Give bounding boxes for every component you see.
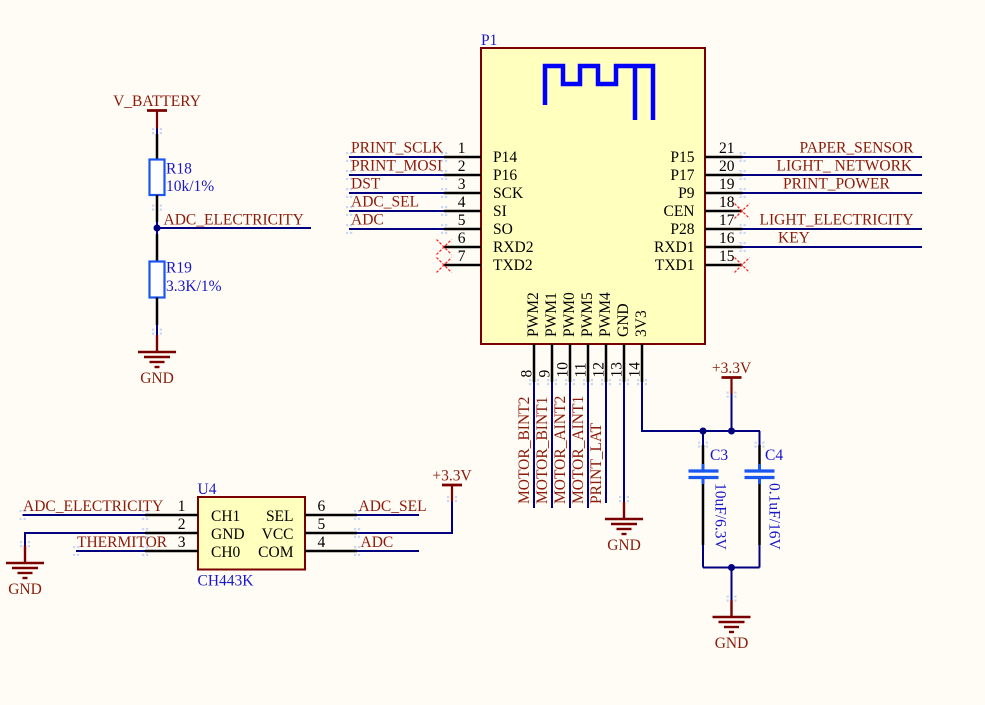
pin 9 (PWM1) stub [551, 344, 554, 382]
svg-text:C4: C4 [765, 447, 783, 464]
wire net THERMITOR [76, 550, 145, 552]
svg-text:PWM5: PWM5 [579, 292, 596, 337]
svg-text:CEN: CEN [664, 203, 695, 220]
no-connect X on pin 15 [735, 258, 750, 273]
wire net ADC_ELECTRICITY to U4 pin1 [23, 514, 146, 516]
svg-text:PRINT_SCLK: PRINT_SCLK [351, 140, 444, 157]
svg-text:CH443K: CH443K [198, 573, 255, 590]
wire R19 to ground [156, 298, 159, 326]
svg-text:7: 7 [458, 248, 466, 265]
svg-text:P9: P9 [678, 185, 695, 202]
wire 3V3 from pin14 [642, 382, 760, 431]
svg-text:R19: R19 [166, 260, 192, 277]
pin 5 stub U4 [305, 532, 357, 535]
power port +3.3V at U4 [442, 484, 462, 487]
svg-text:GND: GND [140, 370, 174, 387]
wire net MOTOR_BINT1 [551, 382, 553, 508]
svg-text:2: 2 [458, 158, 466, 175]
pin 2 (P16) stub [444, 174, 481, 177]
svg-text:V_BATTERY: V_BATTERY [113, 93, 201, 110]
svg-text:17: 17 [719, 212, 735, 229]
wire pin13 GND [623, 382, 625, 502]
wire net PAPER_SENSOR [743, 156, 923, 158]
wire caps to ground [731, 568, 733, 601]
svg-text:4: 4 [458, 194, 466, 211]
svg-text:P1: P1 [481, 32, 497, 49]
pin 3 (SCK) stub [444, 192, 481, 195]
pin 1 stub U4 [145, 514, 198, 517]
svg-text:PWM0: PWM0 [561, 292, 578, 337]
svg-text:P14: P14 [493, 149, 517, 166]
svg-text:13: 13 [609, 362, 626, 378]
pin 10 (PWM0) stub [569, 344, 572, 382]
antenna meander graphic inside P1 [545, 66, 653, 120]
svg-text:GND: GND [607, 537, 641, 554]
svg-text:GND: GND [211, 526, 245, 543]
svg-text:SCK: SCK [493, 185, 524, 202]
wire caps bottom bus [703, 567, 760, 569]
no-connect X on pin 6 [437, 240, 452, 255]
wire net KEY [743, 246, 923, 248]
wire net PRINT_SCLK [349, 156, 444, 158]
svg-text:CH0: CH0 [211, 544, 241, 561]
svg-text:10: 10 [555, 362, 572, 378]
pin 1 (P14) stub [444, 156, 481, 159]
svg-text:5: 5 [458, 212, 466, 229]
svg-text:MOTOR_AINT2: MOTOR_AINT2 [552, 396, 569, 504]
wire net ADC [349, 228, 444, 230]
svg-text:MOTOR_BINT2: MOTOR_BINT2 [516, 397, 533, 504]
svg-text:20: 20 [719, 158, 735, 175]
pin 6 (RXD2) stub [444, 246, 481, 249]
svg-text:MOTOR_AINT1: MOTOR_AINT1 [570, 396, 587, 504]
svg-text:ADC: ADC [361, 534, 394, 551]
svg-text:10k/1%: 10k/1% [166, 178, 214, 195]
wire net LIGHT_ NETWORK [743, 174, 923, 176]
pin 6 stub U4 [305, 514, 357, 517]
svg-text:SEL: SEL [266, 508, 294, 525]
wire net ADC at U4 [357, 550, 419, 552]
IC U4 body [198, 497, 305, 570]
svg-text:GND: GND [715, 635, 749, 652]
svg-text:3V3: 3V3 [633, 310, 650, 337]
svg-text:VCC: VCC [262, 526, 294, 543]
svg-text:ADC_ELECTRICITY: ADC_ELECTRICITY [164, 212, 304, 229]
svg-text:LIGHT_ NETWORK: LIGHT_ NETWORK [777, 158, 913, 175]
wire net PRINT_POWER [743, 192, 923, 194]
svg-text:DST: DST [351, 176, 381, 193]
svg-text:U4: U4 [198, 481, 217, 498]
pin 12 (PWM4) stub [605, 344, 608, 382]
svg-text:0.1uF/16V: 0.1uF/16V [766, 483, 783, 551]
svg-text:8: 8 [519, 370, 536, 378]
svg-text:GND: GND [8, 581, 42, 598]
svg-text:5: 5 [318, 516, 326, 533]
svg-text:PAPER_SENSOR: PAPER_SENSOR [800, 140, 915, 157]
pin 8 (PWM2) stub [533, 344, 536, 382]
svg-text:RXD2: RXD2 [493, 239, 533, 256]
svg-text:P28: P28 [670, 221, 694, 238]
svg-text:CH1: CH1 [211, 508, 240, 525]
ground symbol U4 GND [6, 563, 44, 578]
svg-text:1: 1 [178, 498, 186, 515]
svg-text:PWM1: PWM1 [543, 292, 560, 337]
wire net ADC_SEL [357, 514, 419, 516]
svg-text:C3: C3 [710, 447, 728, 464]
pin 19 (P9) stub [705, 192, 743, 195]
svg-text:R18: R18 [166, 161, 192, 178]
svg-text:PRINT_LAT: PRINT_LAT [588, 423, 605, 504]
svg-text:3: 3 [178, 534, 186, 551]
wire node to R19 [156, 234, 159, 262]
svg-text:6: 6 [458, 230, 466, 247]
svg-text:PRINT_MOSI: PRINT_MOSI [351, 158, 442, 175]
no-connect X on pin 7 [437, 258, 452, 273]
pin 15 (TXD1) stub [705, 264, 743, 267]
capacitor C4 [745, 431, 775, 568]
wire net ADC_ELECTRICITY [157, 227, 311, 229]
svg-text:TXD2: TXD2 [493, 257, 533, 274]
pin 14 (3V3) stub [641, 344, 644, 382]
svg-text:THERMITOR: THERMITOR [77, 534, 168, 551]
pin 2 stub U4 [145, 532, 198, 535]
IC P1 body [481, 48, 705, 344]
pin 5 (SO) stub [444, 228, 481, 231]
ground symbol pin13 GND [623, 502, 625, 519]
svg-text:3: 3 [458, 176, 466, 193]
junction at caps GND [728, 564, 735, 571]
svg-text:PRINT_POWER: PRINT_POWER [783, 176, 890, 193]
wire U4 pin5 to +3.3V [357, 502, 452, 534]
pin 7 (TXD2) stub [444, 264, 481, 267]
ground symbol caps GND [713, 617, 751, 632]
svg-text:PWM2: PWM2 [525, 292, 542, 337]
power port +3.3V at caps [722, 376, 742, 379]
junction at C3 top [700, 428, 707, 435]
pin 16 (RXD1) stub [705, 246, 743, 249]
pin 4 (SI) stub [444, 210, 481, 213]
svg-text:ADC_SEL: ADC_SEL [351, 194, 419, 211]
ground symbol divider GND [138, 352, 176, 367]
wire net MOTOR_BINT2 [533, 382, 535, 508]
svg-text:2: 2 [178, 516, 186, 533]
power port V_BATTERY [147, 109, 167, 112]
capacitor C3 [689, 431, 719, 568]
junction at +3.3V drop [728, 428, 735, 435]
pin 13 (GND) stub [623, 344, 626, 382]
svg-text:ADC_SEL: ADC_SEL [359, 498, 427, 515]
pin 17 (P28) stub [705, 228, 743, 231]
svg-text:+3.3V: +3.3V [432, 468, 472, 485]
svg-text:18: 18 [719, 194, 735, 211]
wire V_BATTERY to R18 [156, 111, 158, 129]
pin 3 stub U4 [145, 550, 198, 553]
wire U4 pin2 to ground [25, 533, 145, 546]
svg-text:SO: SO [493, 221, 513, 238]
svg-text:ADC: ADC [351, 212, 384, 229]
svg-text:16: 16 [719, 230, 735, 247]
svg-text:12: 12 [591, 362, 608, 378]
svg-text:4: 4 [318, 534, 326, 551]
svg-text:9: 9 [537, 370, 554, 378]
svg-text:19: 19 [719, 176, 735, 193]
resistor R19 [150, 262, 165, 298]
svg-text:RXD1: RXD1 [654, 239, 694, 256]
wire net MOTOR_AINT2 [569, 382, 571, 508]
svg-text:COM: COM [258, 544, 294, 561]
wire net MOTOR_AINT1 [587, 382, 589, 508]
svg-text:11: 11 [573, 363, 590, 378]
junction node ADC_ELECTRICITY [154, 225, 161, 232]
svg-text:P15: P15 [670, 149, 694, 166]
svg-text:LIGHT_ELECTRICITY: LIGHT_ELECTRICITY [760, 212, 914, 229]
svg-text:GND: GND [615, 303, 632, 337]
wire net DST [349, 192, 444, 194]
svg-text:10uF/6.3V: 10uF/6.3V [712, 483, 729, 551]
pin 21 (P15) stub [705, 156, 743, 159]
resistor R18 [150, 160, 165, 196]
svg-text:KEY: KEY [778, 230, 810, 247]
wire net ADC_SEL [349, 210, 444, 212]
wire net PRINT_MOSI [349, 174, 444, 176]
svg-text:1: 1 [458, 140, 466, 157]
svg-text:ADC_ELECTRICITY: ADC_ELECTRICITY [23, 498, 163, 515]
svg-text:TXD1: TXD1 [655, 257, 695, 274]
svg-text:SI: SI [493, 203, 507, 220]
svg-text:P16: P16 [493, 167, 517, 184]
wire net PRINT_LAT [605, 382, 607, 503]
svg-text:PWM4: PWM4 [597, 292, 614, 337]
pin 11 (PWM5) stub [587, 344, 590, 382]
pin 4 stub U4 [305, 550, 357, 553]
wire net LIGHT_ELECTRICITY [743, 228, 923, 230]
svg-text:3.3K/1%: 3.3K/1% [166, 278, 222, 295]
wire +3.3V stem [730, 378, 732, 395]
svg-text:MOTOR_BINT1: MOTOR_BINT1 [534, 397, 551, 504]
no-connect X on pin 18 [735, 204, 750, 219]
svg-text:21: 21 [719, 140, 735, 157]
svg-text:15: 15 [719, 248, 735, 265]
svg-text:+3.3V: +3.3V [712, 360, 752, 377]
wire R18 to node [156, 195, 159, 222]
svg-text:6: 6 [318, 498, 326, 515]
pin 20 (P17) stub [705, 174, 743, 177]
svg-text:P17: P17 [670, 167, 694, 184]
pin 18 (CEN) stub [705, 210, 743, 213]
svg-text:14: 14 [627, 362, 644, 378]
